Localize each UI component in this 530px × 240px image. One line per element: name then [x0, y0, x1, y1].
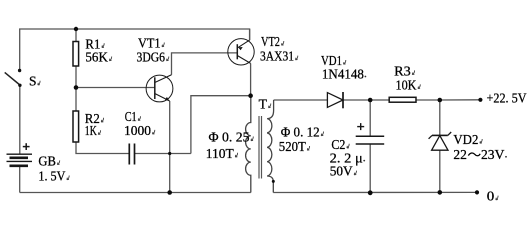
wire battery to bottom rail	[19, 166, 21, 193]
node VD1/C2	[368, 98, 373, 103]
wire C2 branch bottom	[369, 144, 371, 193]
wire R1 column top	[75, 29, 77, 42]
diode VD1	[327, 92, 343, 108]
wire bottom rail left	[20, 192, 251, 194]
svg-text:GB: GB	[38, 154, 56, 169]
wire VT2 emitter to rail	[249, 29, 251, 40]
wire VD1 cathode to R3	[343, 99, 389, 101]
wire R1 to node B	[75, 66, 77, 88]
resistor R2	[73, 111, 79, 142]
svg-text:T: T	[259, 98, 268, 113]
zener diode VD2	[429, 132, 452, 150]
return marks	[38, 41, 507, 200]
svg-text:VD2: VD2	[453, 133, 478, 148]
transistor VT2	[228, 39, 254, 65]
svg-text:10K: 10K	[396, 78, 417, 93]
transformer T primary winding	[246, 96, 251, 193]
wire R3 to VD2 node	[416, 99, 440, 101]
svg-text:23V: 23V	[481, 148, 504, 163]
capacitor C1	[129, 144, 134, 165]
transformer T secondary winding	[267, 100, 274, 193]
svg-text:22: 22	[453, 148, 467, 163]
svg-text:56K: 56K	[85, 51, 108, 66]
wire to +22.5V terminal	[440, 99, 481, 101]
svg-text:+22. 5V: +22. 5V	[487, 91, 527, 106]
svg-text:VT1: VT1	[138, 37, 161, 52]
transistor VT1	[146, 75, 173, 102]
svg-text:0: 0	[487, 190, 495, 205]
svg-text:1. 5V: 1. 5V	[38, 170, 65, 185]
svg-text:C2: C2	[331, 138, 345, 153]
wire base VT1	[76, 87, 155, 89]
node T top	[248, 93, 253, 98]
wire riser to node T	[191, 96, 251, 154]
svg-text:R3: R3	[394, 64, 411, 79]
svg-text:VT2: VT2	[261, 35, 280, 50]
svg-text:3DG6: 3DG6	[137, 51, 166, 66]
svg-text:110T: 110T	[206, 147, 234, 162]
wire top rail	[20, 29, 250, 69]
node VD2 bottom	[438, 190, 443, 195]
resistor R1	[73, 42, 79, 67]
svg-text:1000: 1000	[124, 124, 151, 139]
wire VT1 collector up and right to VT2 base	[172, 53, 238, 75]
wire switch bottom to battery	[19, 86, 21, 155]
transformer core	[259, 116, 262, 179]
terminal 0V	[475, 190, 479, 194]
wire VT1 emitter down	[169, 101, 171, 193]
node rail/R1	[74, 27, 78, 31]
wire VD2 branch top	[439, 100, 441, 135]
node secondary bottom bend	[272, 180, 275, 183]
node emitter/bottom rail	[167, 190, 172, 195]
terminal +22.5V	[478, 98, 482, 102]
wire secondary top to VD1	[274, 99, 328, 101]
node C2 bottom	[368, 190, 373, 195]
svg-text:3AX31: 3AX31	[260, 50, 294, 65]
svg-text:S: S	[29, 75, 37, 90]
wire C2 branch top	[369, 100, 371, 136]
wire node B to R2	[75, 88, 77, 112]
wire C1 right to riser	[134, 153, 191, 155]
node emitter/C1 wire	[168, 152, 171, 155]
switch S	[5, 69, 22, 87]
wire VD2 branch bottom	[439, 150, 441, 192]
svg-text:50V: 50V	[330, 165, 353, 180]
wire VT2 collector down	[250, 63, 252, 95]
svg-text:Φ 0. 12: Φ 0. 12	[281, 126, 320, 141]
svg-text:1K: 1K	[85, 124, 97, 139]
capacitor C2	[356, 123, 385, 144]
wire R2 bottom to C1	[76, 142, 129, 154]
resistor R3	[389, 97, 416, 102]
svg-text:Φ 0. 25: Φ 0. 25	[209, 131, 250, 146]
wide tilde	[468, 153, 480, 156]
svg-text:520T: 520T	[279, 140, 306, 155]
node R3/VD2	[438, 98, 443, 103]
wire bottom rail right	[273, 191, 477, 193]
svg-text:1N4148: 1N4148	[322, 67, 364, 82]
node base junction	[74, 85, 79, 90]
battery GB	[7, 143, 33, 166]
